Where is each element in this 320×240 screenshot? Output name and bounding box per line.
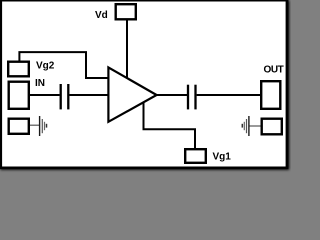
ground left bbox=[40, 116, 47, 136]
pad OUT bbox=[261, 81, 280, 109]
capacitor C1 (input DC block) bbox=[60, 84, 62, 109]
ground right bbox=[242, 116, 249, 136]
wire amplifier output to capacitor C2 bbox=[156, 94, 187, 96]
wire Vg2 to amplifier upper input bbox=[19, 52, 108, 78]
pad Vg2 bbox=[8, 62, 29, 77]
wire Vd to amplifier top bbox=[126, 21, 128, 78]
wire capacitor C1 to amplifier input bbox=[70, 94, 109, 96]
wire amplifier lower edge to Vg1 pad bbox=[144, 102, 196, 149]
op-amp U1 (amplifier triangle) bbox=[108, 67, 156, 121]
wire right pad to ground bbox=[250, 125, 261, 127]
wire left pad to ground bbox=[30, 124, 40, 126]
svg-text:Vd: Vd bbox=[95, 10, 108, 21]
capacitor C2 (output DC block) bbox=[187, 85, 189, 110]
svg-text:IN: IN bbox=[35, 78, 45, 89]
pad IN bbox=[9, 82, 29, 109]
pad Vd bbox=[116, 4, 136, 19]
svg-text:Vg2: Vg2 bbox=[36, 61, 55, 72]
pad Vg1 bbox=[185, 149, 206, 163]
svg-text:OUT: OUT bbox=[264, 65, 284, 76]
wire capacitor C2 to OUT pad bbox=[197, 94, 260, 96]
pad ground right bbox=[262, 119, 282, 135]
wire IN pad to capacitor C1 bbox=[30, 94, 60, 96]
schematic sheet frame bbox=[1, 1, 290, 170]
pad ground left bbox=[9, 119, 29, 134]
svg-text:Vg1: Vg1 bbox=[213, 152, 232, 163]
